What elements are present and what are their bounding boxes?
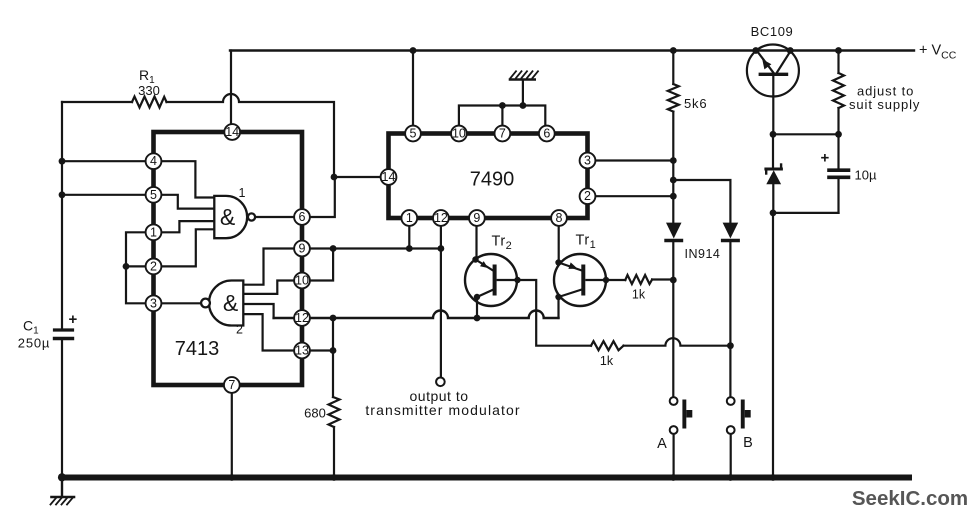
svg-text:680: 680 — [304, 406, 326, 421]
junction: C1 line / ground rail — [58, 473, 66, 481]
wire gate1 output to pin 6 — [248, 216, 302, 218]
wire Tr2 base down to lower 1k — [518, 280, 592, 346]
junction: Vcc / 5k6 — [670, 47, 677, 54]
wire Vcc to adjust resistor — [837, 51, 839, 74]
7413 pin 3 — [146, 295, 162, 311]
7490 pin 1 — [401, 210, 417, 226]
svg-text:2: 2 — [150, 259, 157, 273]
svg-text:3: 3 — [584, 154, 591, 168]
ground — [51, 478, 75, 505]
zener diode — [766, 134, 782, 213]
wire cap bottom to zener bottom — [773, 212, 839, 214]
wire gate1 input 4 from pin 2 — [154, 229, 215, 266]
wire below diode D2 to switch B — [729, 243, 731, 397]
wire pin4 to left column — [62, 160, 154, 162]
7413 pin 6 — [294, 209, 310, 225]
wire pins 1-2-3 left loop — [126, 232, 154, 303]
node: Tr1 base lead — [603, 277, 609, 283]
junction: 7490 pin2 wire / 5k6 column — [670, 193, 677, 200]
junction: Vcc / 7490 pin5 — [410, 47, 417, 54]
7490 pin 12 — [433, 210, 449, 226]
svg-text:+: + — [821, 150, 830, 167]
svg-text:8: 8 — [556, 211, 563, 225]
junction: switch A / ground rail — [670, 474, 677, 481]
junction: Vcc / BC109 collector — [787, 47, 794, 54]
wire 7490 pin2 to 5k6 node — [588, 195, 674, 197]
junction: ground bus / ground stub — [520, 102, 527, 109]
wire 7413 pin6 riser to node x334 — [302, 177, 335, 217]
wire 7490 pin9 to Tr2 emitter — [475, 218, 477, 259]
svg-text:9: 9 — [299, 242, 306, 256]
svg-text:9: 9 — [473, 211, 480, 225]
wire Vcc-rail to 7413 pin 14 — [230, 51, 232, 133]
wire gate1 input 1 from pin 4 — [154, 161, 215, 197]
resistor 1k lower — [591, 341, 624, 350]
junction: 1k / diode column A — [670, 277, 677, 284]
wire pin 12 net: 7413 pin12 to Tr1 collector with hops — [274, 311, 559, 319]
pin circles 7413 — [146, 124, 310, 393]
7413 pin 12 — [294, 310, 310, 326]
svg-text:250µ: 250µ — [18, 336, 50, 351]
svg-text:1k: 1k — [600, 354, 614, 368]
7413 pin 1 — [146, 224, 162, 240]
svg-text:7: 7 — [228, 378, 235, 392]
svg-text:5: 5 — [410, 127, 417, 141]
junction: R1 net / 7490 pin14 / 7413 pin6 — [331, 174, 338, 181]
junction: pin4 wire / C1 line — [59, 158, 66, 165]
output terminal circle — [436, 378, 445, 387]
svg-text:14: 14 — [225, 125, 239, 139]
wire 7490 pins 10-7-6 ground bus — [459, 106, 545, 134]
wire x334 to 7490 pin14 — [334, 176, 389, 178]
svg-text:3: 3 — [150, 296, 157, 310]
wire 7413 pin10 riser to pin9 wire — [302, 249, 333, 281]
junction: diode D2 feed / 5k6 column — [670, 177, 677, 184]
svg-text:1: 1 — [406, 211, 413, 225]
svg-text:12: 12 — [295, 311, 309, 325]
svg-text:10µ: 10µ — [855, 168, 877, 183]
node: Tr1 collector lead — [555, 294, 561, 300]
wire lower 1k to switch B line (hop over switch A line) — [624, 338, 731, 345]
switch A — [670, 397, 693, 477]
7413 pin 5 — [146, 187, 162, 203]
junction: zener column / ground rail — [770, 474, 777, 481]
wire 680 to ground rail — [333, 427, 335, 478]
svg-text:7413: 7413 — [175, 338, 220, 360]
7490 pin 3 — [580, 153, 596, 169]
wire 7490 pin5 riser to Vcc — [412, 51, 414, 134]
7490 pin 7 — [495, 126, 511, 142]
NAND gate 2 (mirrored) — [201, 281, 243, 326]
junction: pin12 net / 680 branch — [330, 315, 337, 322]
svg-text:4: 4 — [150, 154, 157, 168]
node: Tr2 collector lead — [474, 294, 480, 300]
wire Vcc to 5k6 — [672, 51, 674, 85]
svg-text:suit supply: suit supply — [849, 97, 920, 112]
7413 pin 2 — [146, 259, 162, 275]
wire 5k6 down to diode D1 — [672, 112, 674, 223]
junction: 680 / ground rail — [331, 474, 338, 481]
wire 7413 pin7 to ground rail — [231, 393, 233, 478]
svg-text:10: 10 — [295, 274, 309, 288]
IC 7490 box — [389, 134, 588, 219]
junction: switch B / ground rail — [727, 474, 734, 481]
7413 pin 4 — [146, 153, 162, 169]
svg-text:1k: 1k — [632, 288, 646, 302]
wire 7413 pin9 to 7490 pins 1,12 — [302, 247, 441, 249]
resistor 1k upper — [625, 275, 652, 284]
transistor Tr2 — [465, 254, 518, 306]
pin number labels — [150, 125, 591, 392]
7413 pin 9 — [294, 241, 310, 257]
wire left column C1 — [61, 102, 63, 328]
svg-text:10: 10 — [452, 127, 466, 141]
wire 7490 pin8 to Tr1 emitter — [558, 218, 560, 262]
wire below diode D1 to switch A — [672, 243, 674, 397]
7413 pin 13 — [294, 343, 310, 359]
junction: Vcc / BC109 emitter — [752, 47, 759, 54]
svg-text:5: 5 — [150, 188, 157, 202]
7490 pin 6 — [539, 126, 555, 142]
wire gate2 output to pin 3 — [161, 302, 201, 304]
wire R1 to corner x334 (hop over 7413 pin14 riser) — [167, 94, 335, 177]
wire gate2 input 1 to pin 9 — [243, 249, 302, 285]
junction: Tr2 collector / pin12 net — [474, 315, 481, 322]
resistor 680 — [329, 397, 340, 427]
IC 7413 box — [154, 132, 303, 385]
wire Tr2 collector riser — [476, 297, 478, 318]
pin circles 7490 — [381, 126, 596, 226]
junction: 7413 pin9 wire / pin10 riser — [330, 245, 337, 252]
wire gate1 input 3 from pin 1 — [154, 221, 215, 232]
svg-text:transmitter modulator: transmitter modulator — [365, 402, 520, 418]
wire Tr1 base to upper 1k — [606, 279, 625, 281]
svg-text:12: 12 — [434, 211, 448, 225]
wire 7490 pin1 riser — [408, 218, 410, 249]
junction: pin5 wire / C1 line — [59, 191, 66, 198]
svg-text:330: 330 — [138, 83, 160, 98]
junction: pin13 wire / 680 branch — [330, 347, 337, 354]
svg-text:&: & — [220, 204, 235, 230]
7490 pin 8 — [551, 210, 567, 226]
svg-text:6: 6 — [543, 127, 550, 141]
wire gate2 input 4 to pin 13 wire — [243, 314, 332, 350]
wire Tr1 collector riser — [557, 297, 559, 318]
svg-text:7: 7 — [499, 127, 506, 141]
ground rail — [62, 475, 909, 481]
svg-text:B: B — [743, 435, 753, 451]
svg-text:5k6: 5k6 — [684, 96, 707, 111]
svg-text:2: 2 — [236, 323, 243, 337]
diode D2 IN914 — [723, 223, 739, 241]
wire 7490 pin3 to 5k6 node — [588, 159, 674, 161]
junction: Vcc / adjust resistor — [835, 47, 842, 54]
wire adjust resistor to cap node — [837, 108, 839, 134]
svg-text:+: + — [69, 311, 78, 328]
inverted ground symbol — [510, 71, 538, 105]
junction: 7413 pin7 / ground rail — [228, 474, 235, 481]
junction: 7490 pin12 riser / output line — [438, 245, 445, 252]
transistor BC109 — [747, 45, 799, 135]
wire gate2 input 2 to pin 10 — [243, 281, 302, 294]
junction: 7490 pin3 wire / 5k6 column — [670, 157, 677, 164]
node +Vcc rail — [230, 49, 914, 51]
wire pin12/pin13 nets down to 680 — [332, 318, 334, 397]
junction: adjust resistor / 10u cap — [835, 131, 842, 138]
svg-text:6: 6 — [299, 210, 306, 224]
7413 pin 7 — [224, 377, 240, 393]
node: Tr2 emitter lead — [472, 256, 478, 262]
junction: ground bus / 7490 pin7 — [499, 102, 506, 109]
capacitor 10u — [829, 134, 849, 213]
capacitor C1 — [55, 330, 73, 339]
7413 pin 14 — [224, 124, 240, 140]
node: Tr2 base lead — [514, 277, 520, 283]
diode D1 IN914 — [666, 223, 682, 241]
junction: BC109 base node — [770, 131, 777, 138]
7490 pin 9 — [469, 210, 485, 226]
junction: zener / cap return — [770, 210, 777, 217]
svg-text:14: 14 — [382, 170, 396, 184]
junction: pin2 left loop — [123, 263, 130, 270]
7413 pin 10 — [294, 273, 310, 289]
wire gate2 input 3 joins pin 12 net — [243, 304, 273, 318]
svg-text:A: A — [657, 436, 667, 452]
svg-text:13: 13 — [295, 344, 309, 358]
svg-text:BC109: BC109 — [751, 24, 794, 39]
7490 pin 5 — [405, 126, 421, 142]
7490 pin 2 — [580, 188, 596, 204]
junction: lower 1k / diode column B — [727, 342, 734, 349]
NAND gate 1 — [214, 196, 255, 238]
wire 7490 pin12 to output terminal — [440, 218, 442, 377]
wire pin5 to left column — [62, 194, 154, 196]
svg-text:2: 2 — [584, 189, 591, 203]
node: Tr1 emitter lead — [555, 259, 561, 265]
svg-text:SeekIC.com: SeekIC.com — [852, 487, 968, 510]
transistor Tr1 — [554, 254, 606, 306]
resistor adjust-to-suit-supply — [833, 73, 844, 108]
7490 pin 10 — [451, 126, 467, 142]
svg-text:&: & — [223, 290, 238, 316]
wire gate1 input 2 from pin 5 — [154, 195, 215, 209]
wire zener node down to ground rail — [772, 213, 774, 478]
wire node to diode D2 — [673, 180, 730, 223]
resistor 5k6 — [668, 84, 679, 112]
wire C1 line to R1 — [62, 101, 132, 103]
switch B — [727, 397, 751, 477]
resistor R1 330 — [132, 97, 167, 108]
svg-text:IN914: IN914 — [685, 247, 721, 261]
7490 pin 14 — [381, 169, 397, 185]
wire upper 1k to diode/5k6 node — [652, 278, 673, 280]
svg-text:1: 1 — [239, 186, 246, 200]
svg-text:1: 1 — [150, 225, 157, 239]
junction: 7490 pin1 riser — [406, 245, 413, 252]
wire zener node to resistor bottom — [773, 133, 839, 135]
svg-text:7490: 7490 — [470, 169, 515, 191]
